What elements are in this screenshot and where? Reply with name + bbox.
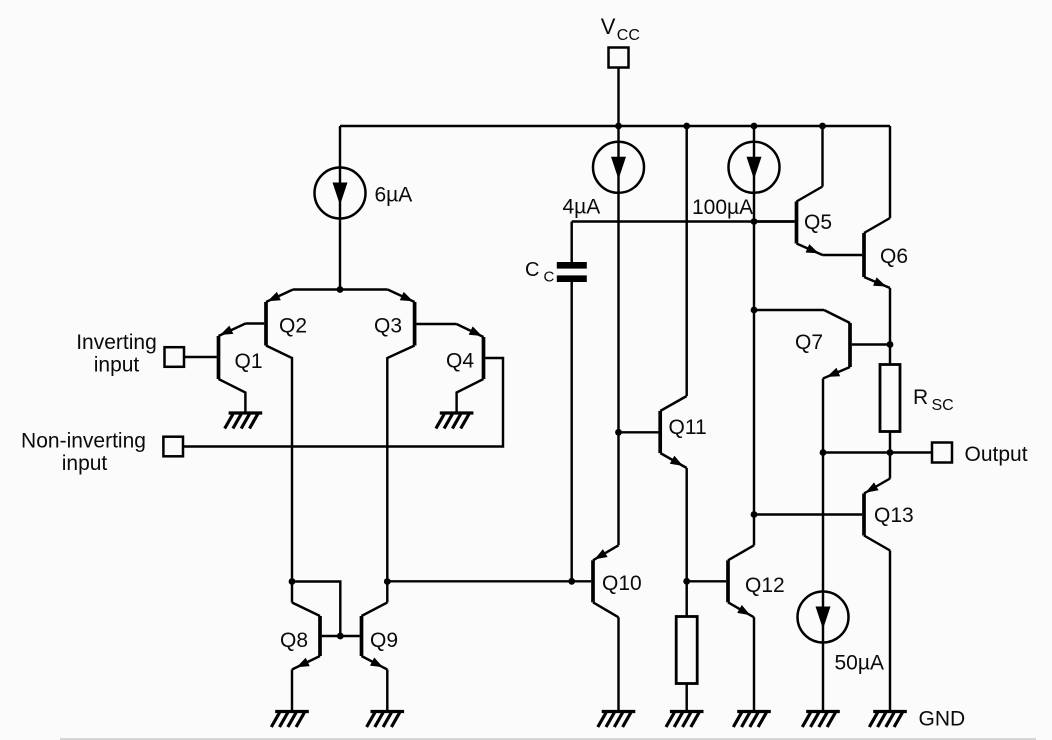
svg-text:Q1: Q1: [235, 350, 263, 373]
svg-text:SC: SC: [932, 397, 954, 414]
svg-text:Q13: Q13: [874, 504, 914, 527]
svg-text:CC: CC: [617, 27, 640, 44]
svg-text:Q5: Q5: [804, 211, 832, 234]
svg-text:V: V: [601, 14, 616, 39]
svg-text:input: input: [62, 452, 108, 475]
svg-text:50µA: 50µA: [835, 652, 884, 675]
svg-text:Q7: Q7: [795, 331, 823, 354]
svg-text:C: C: [525, 259, 539, 281]
svg-text:Q6: Q6: [880, 245, 908, 268]
svg-text:Q9: Q9: [370, 629, 398, 652]
svg-text:6µA: 6µA: [375, 184, 413, 207]
svg-text:GND: GND: [919, 707, 966, 730]
svg-text:Q12: Q12: [745, 574, 785, 597]
svg-text:input: input: [94, 354, 140, 377]
svg-text:Non-inverting: Non-inverting: [21, 430, 146, 453]
svg-text:Q3: Q3: [374, 315, 402, 338]
svg-text:4µA: 4µA: [563, 196, 601, 219]
svg-text:Q10: Q10: [602, 572, 642, 595]
svg-text:100µA: 100µA: [692, 196, 753, 219]
svg-text:R: R: [913, 386, 928, 409]
svg-text:C: C: [544, 269, 555, 286]
svg-text:Output: Output: [965, 443, 1028, 466]
svg-text:Q4: Q4: [446, 350, 474, 373]
svg-text:Q11: Q11: [669, 416, 707, 439]
svg-text:Inverting: Inverting: [76, 331, 157, 354]
svg-text:Q2: Q2: [279, 315, 307, 338]
svg-text:Q8: Q8: [280, 629, 308, 652]
